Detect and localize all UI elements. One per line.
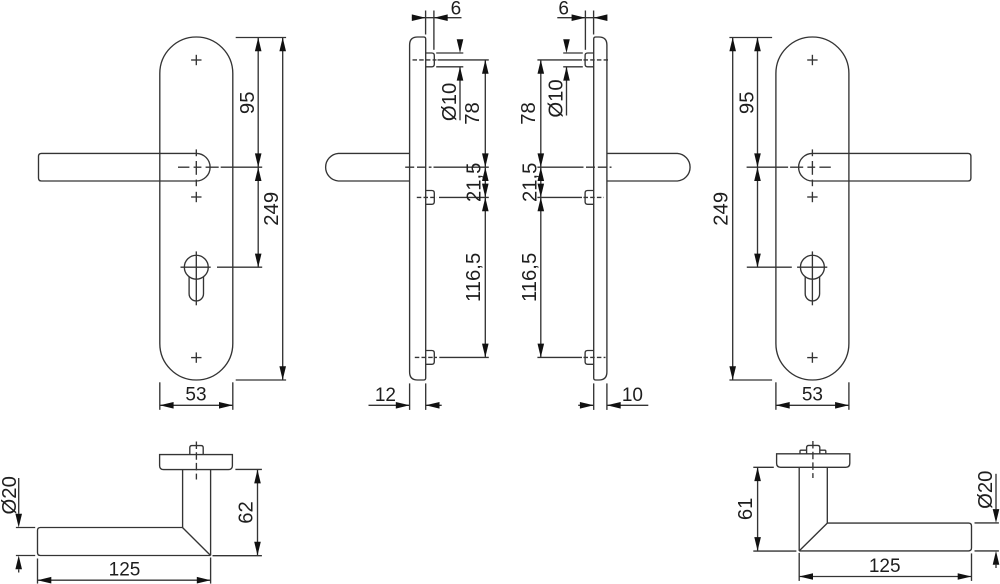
dimension 72 distancing (P2, unlabeled): [757, 167, 759, 267]
screw mark top P2: [807, 59, 817, 61]
svg-text:Ø20: Ø20: [975, 471, 997, 509]
extension line plate top P1: [236, 37, 286, 39]
extension line plate top P2: [729, 37, 772, 39]
backplate side view left (12 mm): [410, 37, 426, 380]
svg-text:95: 95: [237, 92, 259, 115]
centerline handle (side right): [537, 166, 583, 168]
lever handle of P2: [799, 153, 971, 181]
handle stub side view left: [326, 153, 410, 181]
svg-text:78: 78: [462, 102, 484, 125]
svg-text:249: 249: [261, 192, 283, 226]
svg-text:6: 6: [451, 0, 462, 20]
svg-text:53: 53: [185, 385, 206, 406]
svg-text:21,5: 21,5: [519, 163, 541, 202]
extension lines 125 (bottom-right): [798, 553, 800, 581]
backplate side view right (10 mm): [594, 37, 607, 380]
centerline bottom screw (side left): [415, 356, 437, 358]
dimension 61 (bottom-right): [757, 467, 759, 551]
dimension 125 (bottom-left): [38, 579, 211, 581]
dimension 78 (side right): [540, 60, 542, 167]
extension line plate bottom P1: [236, 379, 286, 381]
dimension 72 distancing (P1, unlabeled): [257, 167, 259, 267]
rose flange (bottom-left handle): [160, 455, 233, 470]
PZ keyhole P1: [184, 255, 208, 279]
svg-text:12: 12: [375, 385, 396, 406]
handle neck (bottom-left): [182, 470, 184, 528]
screw head top (side right): [585, 53, 594, 67]
rose flange (bottom-right handle): [777, 454, 850, 468]
svg-text:Ø20: Ø20: [0, 476, 21, 514]
dimension 116,5 (side left): [484, 197, 486, 357]
screw mark middle P2: [807, 196, 817, 198]
handle neck (bottom-right): [798, 467, 800, 551]
handle grip (bottom-right): [799, 523, 971, 551]
svg-text:78: 78: [518, 102, 540, 125]
dimension 249 (P1): [282, 38, 284, 381]
screw mark bottom P1: [191, 357, 201, 359]
screw head middle (side left): [426, 191, 435, 205]
dimension 249 (P2): [732, 38, 734, 381]
dimension 6 (side left): [425, 11, 427, 35]
centerline handle (side left): [405, 166, 431, 168]
handle centerline P2: [747, 166, 789, 168]
dimension 95 (P2): [757, 38, 759, 168]
centerline middle screw (side right): [537, 196, 582, 198]
screw head bottom (side left): [426, 351, 435, 365]
PZ keyhole P2: [800, 255, 824, 279]
lever handle of P1: [39, 153, 211, 181]
dimension 116,5 (side right): [540, 197, 542, 357]
screw head middle (side right): [585, 191, 594, 205]
dimension 125 (bottom-right): [799, 576, 971, 578]
neck chamfer (bottom-left): [183, 528, 211, 556]
dimension 53 (P1): [159, 382, 161, 410]
svg-text:53: 53: [802, 385, 823, 406]
centerline middle screw (side left): [417, 196, 437, 198]
handle grip (bottom-left): [38, 528, 211, 556]
spindle nub (bottom-left handle): [190, 446, 203, 455]
keyhole centerlines P1: [181, 266, 211, 268]
dimension dia20 (bottom-left): [18, 478, 20, 514]
svg-text:125: 125: [109, 560, 141, 581]
backplate P2 (right front view): [776, 37, 849, 380]
dimension 21,5 (side left): [484, 167, 486, 197]
keyhole centerlines P2: [797, 266, 827, 268]
spindle centerline (bottom-right): [812, 441, 814, 478]
dimension 6 (side right): [584, 11, 586, 50]
extension lines dia10 (side right): [563, 52, 583, 54]
svg-text:116,5: 116,5: [519, 253, 541, 302]
dimension 21,5 (side right): [540, 167, 542, 197]
extension lines 61 (bottom-right): [753, 466, 774, 468]
neck chamfer (bottom-right): [799, 523, 827, 551]
extension lines 125 (bottom-left): [37, 559, 39, 584]
extension lines dia20 (bottom-left): [16, 527, 35, 529]
svg-text:Ø10: Ø10: [439, 83, 461, 121]
svg-text:249: 249: [711, 192, 733, 226]
svg-text:125: 125: [869, 556, 901, 577]
centerline bottom screw (side right): [537, 356, 582, 358]
screw mark top P1: [191, 59, 201, 61]
dimension dia10 (side left): [457, 39, 464, 53]
dimension 10 (side right): [593, 383, 595, 410]
screw mark middle P1: [191, 196, 201, 198]
dimension 53 (P2): [775, 382, 777, 410]
extension line keyhole P2: [747, 266, 792, 268]
extension line plate bottom P2: [729, 379, 772, 381]
dimension dia10 (side right): [563, 39, 570, 53]
svg-text:10: 10: [622, 385, 643, 406]
screw head top (side left): [426, 53, 435, 67]
svg-text:6: 6: [558, 0, 569, 20]
svg-text:61: 61: [735, 498, 757, 521]
handle stub side view right: [607, 153, 690, 181]
dimension dia20 (bottom-right): [995, 474, 997, 509]
extension lines dia10 (side left): [436, 52, 463, 54]
extension lines 62 (bottom-left): [235, 468, 262, 470]
handle centerline P1: [178, 166, 189, 168]
centerline top screw (side right): [537, 59, 582, 61]
screw mark bottom P2: [807, 357, 817, 359]
svg-text:62: 62: [236, 501, 258, 524]
spindle centerline (bottom-left): [195, 442, 197, 480]
dimension 78 (side left): [484, 60, 486, 167]
extension line keyhole P1: [217, 266, 262, 268]
backplate P1 (left front view): [160, 37, 233, 380]
dimension 62 (bottom-left): [257, 470, 259, 556]
screw head bottom (side right): [585, 351, 594, 365]
dimension 95 (P1): [257, 38, 259, 168]
dimension 12 (side left): [409, 383, 411, 410]
spindle ferrule (bottom-right handle): [807, 445, 820, 453]
svg-text:21,5: 21,5: [463, 163, 485, 202]
svg-text:95: 95: [737, 92, 759, 115]
centerline top screw (side left): [413, 59, 437, 61]
svg-text:116,5: 116,5: [463, 253, 485, 302]
svg-text:Ø10: Ø10: [546, 79, 568, 117]
extension lines dia20 (bottom-right): [975, 522, 999, 524]
